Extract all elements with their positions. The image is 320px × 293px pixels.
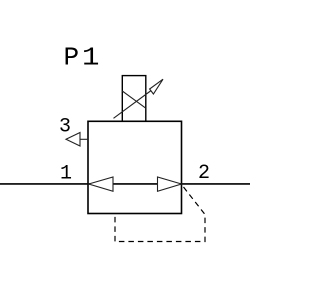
svg-text:P: P — [64, 43, 80, 73]
proportional control box — [122, 76, 146, 122]
port 3 stub — [80, 138, 89, 140]
adjustment arrowhead — [150, 79, 163, 94]
restrictor X diagonal — [122, 91, 146, 108]
port 1 triangle — [89, 177, 113, 191]
svg-text:1: 1 — [82, 44, 99, 73]
main flow line — [0, 183, 250, 185]
svg-text:1: 1 — [60, 162, 72, 185]
svg-text:2: 2 — [198, 162, 210, 185]
valve body — [88, 121, 182, 213]
pilot dashed line — [115, 187, 205, 242]
adjustment arrow shaft — [114, 90, 153, 119]
port 3 triangle — [66, 133, 80, 147]
svg-text:3: 3 — [59, 116, 71, 139]
port 2 triangle — [158, 177, 182, 191]
